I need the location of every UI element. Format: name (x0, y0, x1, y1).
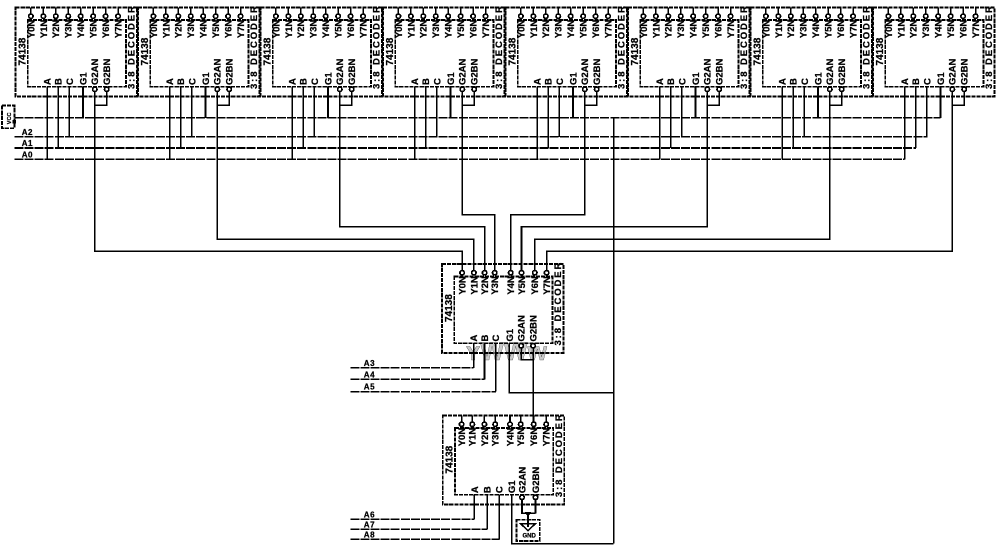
svg-text:Y7N: Y7N (603, 20, 614, 39)
svg-text:Y3N: Y3N (491, 428, 502, 447)
wire U1 pin C to A2 (68, 87, 70, 137)
svg-text:G2BN: G2BN (347, 58, 358, 85)
svg-text:Y2N: Y2N (174, 20, 185, 39)
wire U4 pin C to A2 (436, 87, 438, 137)
svg-text:Y7N: Y7N (971, 20, 982, 39)
wire U4 pin B to A1 (425, 87, 427, 148)
wire U8 G2AN/G2BN to U9 Y7N (547, 92, 965, 271)
svg-text:A6: A6 (364, 510, 375, 519)
svg-text:Y7N: Y7N (726, 20, 737, 39)
svg-text:Y6N: Y6N (101, 20, 112, 39)
svg-text:Y0N: Y0N (26, 20, 37, 39)
74138 decoder U4 (383, 4, 505, 96)
svg-text:3:8 DECODER: 3:8 DECODER (554, 412, 565, 497)
svg-text:Y5N: Y5N (211, 20, 222, 39)
svg-text:Y1N: Y1N (529, 20, 540, 39)
svg-text:A1: A1 (22, 139, 33, 148)
svg-text:G2BN: G2BN (960, 58, 971, 85)
wire U7 pin A to A0 (781, 87, 783, 160)
svg-text:G1: G1 (813, 72, 824, 85)
74138 decoder U10 (443, 412, 565, 504)
wire U5 G2AN/G2BN to U9 Y4N (511, 92, 597, 271)
svg-text:Y0N: Y0N (639, 20, 650, 39)
wire U10 pin C to A8 (498, 495, 500, 540)
svg-text:C: C (310, 78, 321, 85)
svg-text:74138: 74138 (507, 37, 518, 65)
svg-text:G2AN: G2AN (948, 58, 959, 85)
svg-text:Y6N: Y6N (836, 20, 847, 39)
svg-text:Y5N: Y5N (516, 428, 527, 447)
svg-text:B: B (176, 78, 187, 85)
svg-text:Y5N: Y5N (824, 20, 835, 39)
svg-text:B: B (299, 78, 310, 85)
svg-text:A: A (470, 486, 481, 493)
svg-text:Y7N: Y7N (113, 20, 124, 39)
svg-text:A8: A8 (364, 531, 375, 540)
svg-text:G2BN: G2BN (470, 58, 481, 85)
svg-text:A: A (900, 78, 911, 85)
wire U6 pin A to A0 (659, 87, 661, 160)
wire U7 pin C to A2 (803, 87, 805, 137)
wire U7 pin B to A1 (792, 87, 794, 148)
svg-text:Y1N: Y1N (896, 20, 907, 39)
svg-text:C: C (432, 78, 443, 85)
svg-text:Y3N: Y3N (799, 20, 810, 39)
svg-text:Y1N: Y1N (468, 428, 479, 447)
svg-text:Y0N: Y0N (516, 20, 527, 39)
svg-text:Y3N: Y3N (490, 276, 501, 295)
svg-text:Y3N: Y3N (186, 20, 197, 39)
svg-text:G2AN: G2AN (458, 58, 469, 85)
svg-text:74138: 74138 (262, 37, 273, 65)
node A0 bus (14, 158, 904, 160)
svg-text:Y7N: Y7N (542, 276, 553, 295)
svg-text:B: B (480, 335, 491, 342)
svg-text:G2BN: G2BN (837, 58, 848, 85)
svg-text:Y1N: Y1N (284, 20, 295, 39)
wire U6 G2AN/G2BN to U9 Y5N (522, 92, 720, 271)
svg-text:Y5N: Y5N (89, 20, 100, 39)
svg-text:A3: A3 (364, 359, 375, 368)
node A1 bus (14, 147, 916, 149)
svg-text:Y5N: Y5N (701, 20, 712, 39)
wire U1 pin A to A0 (46, 87, 48, 160)
74138 decoder U9 (442, 261, 564, 353)
svg-text:G2BN: G2BN (225, 58, 236, 85)
svg-text:Y3N: Y3N (554, 20, 565, 39)
svg-text:G2AN: G2AN (703, 58, 714, 85)
wire U9 pin B to A4 (484, 343, 486, 379)
svg-text:A: A (533, 78, 544, 85)
svg-text:Y6N: Y6N (959, 20, 970, 39)
svg-text:Y3N: Y3N (431, 20, 442, 39)
svg-text:3:8 DECODER: 3:8 DECODER (494, 4, 505, 89)
node A8 bus (350, 538, 499, 540)
svg-text:G2AN: G2AN (90, 58, 101, 85)
svg-text:C: C (65, 78, 76, 85)
svg-text:Y0N: Y0N (884, 20, 895, 39)
svg-text:C: C (922, 78, 933, 85)
wire U10 G2AN/G2BN to GND (522, 500, 536, 520)
svg-text:Y4N: Y4N (689, 20, 700, 39)
svg-text:G1: G1 (691, 72, 702, 85)
svg-text:Y6N: Y6N (591, 20, 602, 39)
svg-text:Y0N: Y0N (458, 276, 469, 295)
svg-text:Y6N: Y6N (530, 276, 541, 295)
wire U3 pin A to A0 (291, 87, 293, 160)
svg-text:3:8 DECODER: 3:8 DECODER (862, 4, 873, 89)
wire U4 pin A to A0 (414, 87, 416, 160)
svg-text:Y6N: Y6N (529, 428, 540, 447)
svg-text:74138: 74138 (140, 37, 151, 65)
svg-text:Y3N: Y3N (309, 20, 320, 39)
svg-text:Y2N: Y2N (419, 20, 430, 39)
svg-text:74138: 74138 (445, 445, 456, 473)
svg-text:Y5N: Y5N (946, 20, 957, 39)
svg-text:Y4N: Y4N (199, 20, 210, 39)
svg-text:3:8 DECODER: 3:8 DECODER (249, 4, 260, 89)
node A5 bus (350, 391, 496, 393)
svg-text:Y0N: Y0N (761, 20, 772, 39)
node A2 bus (14, 136, 927, 138)
wire U1 G2AN/G2BN to U9 Y0N (95, 92, 462, 271)
svg-text:A7: A7 (364, 520, 375, 529)
svg-text:A: A (655, 78, 666, 85)
svg-text:Y0N: Y0N (149, 20, 160, 39)
svg-text:Y1N: Y1N (774, 20, 785, 39)
wire U9 pin G1 to VCC feed (509, 343, 613, 393)
svg-text:Y4N: Y4N (444, 20, 455, 39)
svg-text:Y4N: Y4N (566, 20, 577, 39)
svg-text:Y0N: Y0N (271, 20, 282, 39)
svg-text:G2AN: G2AN (213, 58, 224, 85)
svg-text:B: B (421, 78, 432, 85)
svg-text:B: B (911, 78, 922, 85)
wire U6 pin C to A2 (681, 87, 683, 137)
wire U2 pin A to A0 (169, 87, 171, 160)
svg-text:A: A (165, 78, 176, 85)
svg-text:G2BN: G2BN (531, 467, 542, 494)
svg-text:B: B (544, 78, 555, 85)
wire U9 G2AN/G2BN to U10 Y6N (521, 348, 533, 422)
svg-text:Y3N: Y3N (676, 20, 687, 39)
svg-text:G1: G1 (568, 72, 579, 85)
wire U5 pin C to A2 (558, 87, 560, 137)
wire U5 pin B to A1 (547, 87, 549, 148)
VCC power symbol (2, 105, 16, 128)
svg-text:Y4N: Y4N (76, 20, 87, 39)
node A4 bus (350, 378, 484, 380)
wire U10 pin B to A7 (486, 495, 488, 530)
svg-text:A: A (288, 78, 299, 85)
svg-text:G1: G1 (446, 72, 457, 85)
svg-text:G1: G1 (201, 72, 212, 85)
svg-text:A2: A2 (22, 128, 33, 137)
wire VCC feed vertical (613, 118, 615, 544)
wire U3 pin B to A1 (302, 87, 304, 148)
wire U4 pin G1 to VCC (450, 87, 452, 118)
svg-text:Y7N: Y7N (236, 20, 247, 39)
74138 decoder U2 (138, 4, 260, 96)
svg-text:B: B (666, 78, 677, 85)
svg-text:G1: G1 (323, 72, 334, 85)
svg-text:Y6N: Y6N (346, 20, 357, 39)
74138 decoder U8 (873, 4, 995, 96)
wire U2 pin C to A2 (191, 87, 193, 137)
GND ground symbol (516, 512, 539, 541)
svg-text:Y2N: Y2N (480, 428, 491, 447)
svg-text:A: A (43, 78, 54, 85)
svg-text:C: C (677, 78, 688, 85)
wire U10 pin A to A6 (473, 495, 475, 519)
wire U6 pin B to A1 (670, 87, 672, 148)
svg-text:Y6N: Y6N (224, 20, 235, 39)
svg-text:Y1N: Y1N (161, 20, 172, 39)
svg-text:G2BN: G2BN (529, 315, 540, 342)
svg-text:Y2N: Y2N (909, 20, 920, 39)
svg-text:3:8 DECODER: 3:8 DECODER (617, 4, 628, 89)
svg-text:Y2N: Y2N (786, 20, 797, 39)
wire U2 G2AN/G2BN to U9 Y1N (217, 92, 474, 271)
wire U2 pin G1 to VCC (205, 87, 207, 118)
svg-text:Y5N: Y5N (517, 276, 528, 295)
svg-text:Y1N: Y1N (469, 276, 480, 295)
svg-text:Y6N: Y6N (469, 20, 480, 39)
svg-text:Y4N: Y4N (321, 20, 332, 39)
74138 decoder U5 (506, 4, 628, 96)
svg-text:Y7N: Y7N (542, 428, 553, 447)
wire U3 pin G1 to VCC (327, 87, 329, 118)
svg-text:G2AN: G2AN (825, 58, 836, 85)
svg-text:Y2N: Y2N (541, 20, 552, 39)
wire U9 pin A to A3 (473, 343, 475, 368)
svg-text:C: C (555, 78, 566, 85)
wire U7 G2AN/G2BN to U9 Y6N (535, 92, 842, 271)
wire U8 pin B to A1 (915, 87, 917, 148)
svg-text:74138: 74138 (385, 37, 396, 65)
wire U2 pin B to A1 (180, 87, 182, 148)
svg-text:VCC: VCC (7, 113, 13, 125)
svg-text:G2BN: G2BN (102, 58, 113, 85)
wire U8 pin C to A2 (926, 87, 928, 137)
svg-text:C: C (800, 78, 811, 85)
svg-text:Y7N: Y7N (481, 20, 492, 39)
svg-text:A: A (778, 78, 789, 85)
74138 decoder U3 (261, 4, 383, 96)
svg-text:C: C (491, 335, 502, 342)
wire U1 pin B to A1 (57, 87, 59, 148)
node A3 bus (350, 367, 473, 369)
svg-text:Y3N: Y3N (64, 20, 75, 39)
svg-text:Y0N: Y0N (457, 428, 468, 447)
svg-text:Y4N: Y4N (505, 428, 516, 447)
wire U7 pin G1 to VCC (817, 87, 819, 118)
wire U3 pin C to A2 (313, 87, 315, 137)
svg-text:Y4N: Y4N (811, 20, 822, 39)
svg-text:3:8 DECODER: 3:8 DECODER (984, 4, 995, 89)
svg-text:GND: GND (523, 534, 537, 540)
74138 decoder U7 (751, 4, 873, 96)
svg-text:Y2N: Y2N (51, 20, 62, 39)
svg-text:Y3N: Y3N (921, 20, 932, 39)
svg-text:A0: A0 (22, 150, 33, 159)
svg-text:Y0N: Y0N (394, 20, 405, 39)
svg-text:74138: 74138 (444, 294, 455, 322)
svg-text:Y5N: Y5N (334, 20, 345, 39)
svg-text:3:8 DECODER: 3:8 DECODER (553, 261, 564, 346)
svg-text:A: A (410, 78, 421, 85)
svg-text:C: C (495, 486, 506, 493)
wire U3 G2AN/G2BN to U9 Y2N (340, 92, 485, 271)
svg-text:Y2N: Y2N (296, 20, 307, 39)
svg-text:Y5N: Y5N (456, 20, 467, 39)
svg-text:G2AN: G2AN (517, 467, 528, 494)
svg-text:3:8 DECODER: 3:8 DECODER (739, 4, 750, 89)
svg-text:G2AN: G2AN (580, 58, 591, 85)
svg-text:A: A (469, 335, 480, 342)
wire U4 G2AN/G2BN to U9 Y3N (462, 92, 494, 271)
wire U5 pin A to A0 (536, 87, 538, 160)
wire U5 pin G1 to VCC (572, 87, 574, 118)
svg-text:B: B (54, 78, 65, 85)
74138 decoder U6 (628, 4, 750, 96)
wire U8 pin G1 to VCC (940, 87, 942, 118)
svg-text:3:8 DECODER: 3:8 DECODER (372, 4, 383, 89)
wire U9 pin C to A5 (495, 343, 497, 391)
wire U1 pin G1 to VCC (82, 87, 84, 118)
svg-text:Y2N: Y2N (664, 20, 675, 39)
svg-text:G2AN: G2AN (335, 58, 346, 85)
svg-text:74138: 74138 (875, 37, 886, 65)
svg-text:74138: 74138 (752, 37, 763, 65)
svg-text:G1: G1 (505, 328, 516, 341)
svg-text:G2AN: G2AN (517, 315, 528, 342)
svg-text:74138: 74138 (630, 37, 641, 65)
wire U6 pin G1 to VCC (695, 87, 697, 118)
svg-text:Y6N: Y6N (714, 20, 725, 39)
svg-text:3:8 DECODER: 3:8 DECODER (127, 4, 138, 89)
svg-text:G2BN: G2BN (592, 58, 603, 85)
svg-text:Y1N: Y1N (651, 20, 662, 39)
74138 decoder U1 (16, 4, 138, 96)
svg-text:A5: A5 (364, 383, 375, 392)
svg-text:G1: G1 (78, 72, 89, 85)
node A6 bus (350, 518, 474, 520)
svg-text:Y4N: Y4N (934, 20, 945, 39)
svg-text:Y1N: Y1N (39, 20, 50, 39)
svg-text:Y5N: Y5N (579, 20, 590, 39)
node A7 bus (350, 528, 487, 530)
wire U8 pin A to A0 (904, 87, 906, 160)
svg-text:A4: A4 (364, 371, 375, 380)
svg-text:Y1N: Y1N (406, 20, 417, 39)
svg-text:Y4N: Y4N (506, 276, 517, 295)
svg-text:B: B (789, 78, 800, 85)
svg-text:C: C (187, 78, 198, 85)
svg-text:Y7N: Y7N (358, 20, 369, 39)
wire U10 pin G1 to VCC feed (512, 495, 614, 544)
svg-text:B: B (483, 486, 494, 493)
svg-text:74138: 74138 (17, 37, 28, 65)
svg-text:G1: G1 (936, 72, 947, 85)
svg-text:Y7N: Y7N (848, 20, 859, 39)
svg-text:G2BN: G2BN (715, 58, 726, 85)
wire VCC rail (14, 117, 940, 119)
